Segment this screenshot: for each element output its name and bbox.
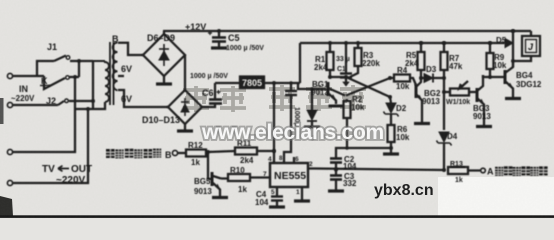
diode D5 <box>505 39 513 48</box>
label BG2 9013 <box>422 89 441 106</box>
junction J2 output <box>91 99 95 103</box>
label BG1 9013 <box>311 80 329 97</box>
big grey watermark char 4 <box>306 85 332 111</box>
junction x88 <box>86 107 90 111</box>
wire +12V to BG4 collector <box>511 29 515 67</box>
base wire BG4 node <box>483 75 505 79</box>
zener diode D4 <box>437 132 452 170</box>
capacitor C6 <box>202 83 222 107</box>
label BG3 9013 <box>473 104 491 121</box>
wire bus up to J1 <box>37 61 54 76</box>
resistor R9 <box>487 41 494 77</box>
label C5 value <box>226 33 264 52</box>
resistor R13 <box>448 167 485 174</box>
resistor R4 <box>388 75 416 86</box>
terminal TV out top <box>7 75 77 155</box>
crossing wire B <box>346 78 390 96</box>
resistor R2 <box>344 99 351 148</box>
wire secondary top to bridge1 <box>118 43 143 55</box>
label standby signal output (CJK) <box>106 149 172 160</box>
NE555 pin1 ground <box>294 187 310 201</box>
label IN ~220V <box>11 84 35 103</box>
wire switch bus vertical <box>92 61 94 109</box>
bottom border scan line <box>0 215 554 218</box>
label R13 1k <box>450 161 465 184</box>
regulator 7805 <box>215 77 300 89</box>
bottom left scan blob <box>0 196 13 216</box>
NE555 timer <box>270 157 315 187</box>
+5V rail <box>300 42 505 44</box>
label R10 1k <box>230 166 247 194</box>
NE555 pin numbers <box>263 155 313 196</box>
label A signal input (CJK) <box>487 166 548 176</box>
NE555 pin5 and C4 <box>269 187 285 207</box>
transformer core <box>110 42 114 105</box>
transistor BG1 base wire <box>298 83 326 89</box>
junction above K <box>77 59 81 63</box>
relay J coil <box>513 31 540 61</box>
terminal IN bottom <box>7 102 58 107</box>
big grey watermark char 1 <box>183 86 209 112</box>
label R6 10k <box>396 125 410 142</box>
label R5 2k4 <box>405 51 419 68</box>
capacitor C2 <box>330 159 342 176</box>
ground under bridge2 <box>177 124 193 131</box>
transistor BG2 <box>414 78 430 124</box>
label R2 10k <box>351 95 365 112</box>
crossing wire A <box>346 77 390 97</box>
big grey watermark char 3 <box>269 85 295 111</box>
transistor BG1 <box>328 82 345 106</box>
label C1 33u <box>336 56 350 73</box>
resistor R6 <box>383 125 399 154</box>
junction R12/R11 <box>206 150 210 154</box>
wire J1 node down to K contact <box>78 61 80 77</box>
transistor BG4 <box>505 61 521 99</box>
label BG5 9013 <box>194 177 212 196</box>
wire secondary mid tap stub <box>118 75 124 77</box>
big grey watermark char 2 <box>220 86 246 112</box>
label R12 1k <box>188 141 203 167</box>
capacitor C3 <box>328 168 344 192</box>
resistor R7 <box>441 41 448 78</box>
label R3 220k <box>362 51 380 68</box>
label C4 104 <box>255 190 269 207</box>
junction BG2 collector <box>419 76 423 80</box>
resistor R10 <box>221 174 270 181</box>
bridge rectifier D6-D9 <box>143 34 185 76</box>
lighter paper patch bottom-right <box>438 177 554 216</box>
left edge scan smudge <box>0 98 4 124</box>
bridge rectifier D10-D13 <box>168 90 202 124</box>
switch J1 <box>54 56 93 62</box>
standby output terminal B wire <box>172 150 186 155</box>
label BG4 3DG12 <box>516 71 542 89</box>
capacitor C7 <box>284 81 297 163</box>
switch K <box>44 76 79 89</box>
label R9 10k <box>493 53 507 70</box>
trigger rail to R13 <box>315 168 446 172</box>
big grey watermark char 5 <box>340 85 366 111</box>
wire to R11 <box>208 151 235 152</box>
NE555 supply drop <box>272 81 276 163</box>
label TV OUT <box>42 164 92 186</box>
wire bridge1 to bridge2 <box>184 55 186 90</box>
resistor R11 <box>235 148 276 155</box>
label R1 2k4 <box>314 55 328 72</box>
transformer B primary winding <box>93 61 109 102</box>
label R4 10k <box>396 66 410 91</box>
switch J2 <box>58 99 93 105</box>
label C3 332 <box>343 172 357 188</box>
transistor BG5 <box>208 152 228 198</box>
capacitor C5 <box>208 29 227 48</box>
terminal IN top <box>7 73 44 78</box>
terminal TV out bottom <box>7 109 88 186</box>
transistor BG3 <box>476 75 492 127</box>
resistor R3 <box>350 41 362 77</box>
resistor R12 <box>186 150 208 157</box>
diode D3 <box>421 74 444 83</box>
label C6 value <box>190 73 228 98</box>
+12V rail <box>163 30 531 32</box>
wire primary bottom row <box>75 102 105 109</box>
wire bridge1 plus to rail <box>163 31 165 34</box>
label R11 2k4 <box>237 139 254 165</box>
capacitor C1 <box>340 41 352 86</box>
label K <box>40 76 50 86</box>
watermark www.elecians.com <box>201 121 384 144</box>
wire D3/R7 node down (D4 branch) <box>442 76 446 130</box>
+5V feed up to rail <box>299 43 301 83</box>
zener diode D2 <box>384 95 399 125</box>
ground under bridge1 <box>156 76 172 84</box>
label C2 104 <box>343 155 357 171</box>
transformer B secondary winding <box>113 43 118 91</box>
label R7 47k <box>449 54 463 71</box>
resistor R1 <box>327 41 334 77</box>
potentiometer W1 <box>442 81 477 96</box>
wire secondary bottom to bridge2 <box>118 90 168 107</box>
diode D1 <box>304 87 320 127</box>
resistor R5 <box>418 41 425 78</box>
wire R6 node to C2 top <box>336 146 391 158</box>
node wire R1-C1 <box>328 75 348 79</box>
